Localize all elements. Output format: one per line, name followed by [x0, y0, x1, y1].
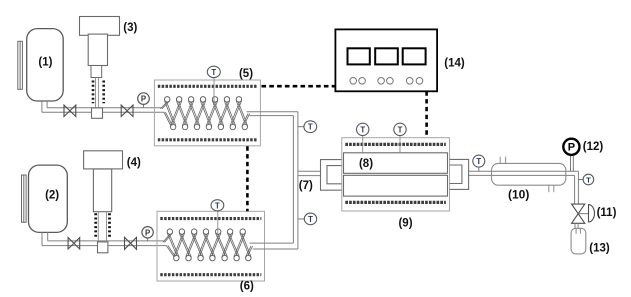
wire: upper feed pipe	[42, 108, 164, 113]
wire: lower feed pipe	[42, 241, 167, 246]
svg-text:P: P	[141, 95, 146, 104]
heater hatch row top of reactor	[345, 143, 446, 146]
svg-text:(2): (2)	[45, 190, 59, 202]
svg-text:(12): (12)	[583, 141, 604, 153]
temperature sensor T (reactor outlet)	[473, 155, 485, 171]
wire: tank 2 outlet elbow	[42, 232, 48, 246]
svg-text:(11): (11)	[597, 207, 617, 219]
heater hatch row bottom of reactor	[345, 201, 446, 204]
temperature sensor T on (6)	[211, 200, 224, 234]
svg-text:T: T	[215, 201, 220, 210]
svg-text:(7): (7)	[299, 180, 313, 192]
wire: down pipe to valve 11	[575, 171, 579, 204]
svg-text:(10): (10)	[508, 188, 529, 202]
svg-text:(13): (13)	[589, 243, 610, 255]
node (7) mixing junction pipe	[298, 171, 321, 175]
control panel (14)	[335, 29, 437, 91]
valve (11) with actuator	[572, 204, 595, 223]
svg-text:(3): (3)	[123, 22, 137, 34]
svg-text:T: T	[308, 123, 313, 132]
temperature sensor T (product)	[578, 174, 593, 185]
temperature sensor T1 on reactor	[357, 123, 369, 152]
valve V4	[125, 237, 137, 249]
svg-text:P: P	[568, 142, 575, 154]
svg-text:(9): (9)	[398, 218, 412, 230]
svg-text:T: T	[476, 157, 481, 166]
heater hatch row bottom of (6)	[160, 273, 261, 276]
pump (4) dosing pump	[84, 151, 123, 253]
reactor inner tube (8)	[344, 153, 448, 174]
heater hatch row top of (5)	[158, 85, 258, 88]
heater hatch row top of (6)	[160, 217, 261, 220]
coil of heat exchanger (6)	[163, 229, 253, 261]
temperature sensor T on (5)	[207, 66, 220, 103]
heat exchanger (6) shell	[157, 211, 265, 281]
control signal: exchanger 5 to exchanger 6 (dashed)	[246, 146, 249, 211]
svg-text:T: T	[211, 68, 216, 77]
svg-text:(8): (8)	[359, 158, 373, 170]
svg-text:T: T	[398, 125, 403, 134]
wire: reactor outlet manifold inner	[450, 165, 462, 184]
heat exchanger (5) shell	[154, 80, 260, 146]
condenser (10)	[492, 157, 566, 193]
svg-text:(6): (6)	[240, 281, 254, 293]
coil of heat exchanger (5)	[160, 97, 249, 130]
svg-text:T: T	[586, 175, 591, 184]
svg-text:P: P	[145, 228, 150, 237]
valve V3 (tank 2 isolation)	[68, 238, 80, 249]
heater hatch row bottom of (5)	[158, 138, 258, 141]
wire: reactor inlet manifold outer	[321, 160, 343, 191]
svg-text:(4): (4)	[127, 157, 141, 169]
svg-text:(1): (1)	[38, 56, 52, 68]
control signal: panel to reactor (dashed)	[425, 91, 428, 137]
wire: product pipe to condenser	[469, 171, 579, 175]
wire: vertical manifold pipe at node 7	[293, 112, 298, 249]
pump (3) dosing pump	[80, 17, 120, 119]
reactor (8)/(9) outer shell	[342, 138, 450, 211]
temperature sensor T2 on reactor	[394, 123, 406, 152]
wire: exchanger 5 outlet pipe	[247, 112, 298, 116]
valve V2	[121, 105, 133, 116]
wire: reactor outlet manifold outer	[450, 159, 469, 189]
control signal: panel to exchanger 5 (dashed)	[262, 85, 336, 88]
svg-text:T: T	[360, 125, 365, 134]
valve V1 (tank 1 isolation)	[64, 105, 76, 116]
temperature sensor T (hot stream)	[298, 121, 317, 133]
pressure gauge P (lower line)	[142, 227, 153, 241]
tank (2) feed vessel	[22, 165, 68, 232]
wire: reactor inlet manifold inner	[327, 166, 342, 184]
svg-text:(5): (5)	[239, 68, 253, 80]
svg-text:(14): (14)	[444, 58, 465, 70]
temperature sensor T (cold stream)	[298, 213, 317, 225]
pressure gauge P (12)	[563, 139, 579, 172]
tank (1) feed vessel	[18, 29, 63, 101]
collection vessel (13)	[571, 228, 586, 254]
svg-text:T: T	[308, 215, 313, 224]
wire: tank 1 outlet elbow	[42, 101, 47, 112]
pressure gauge P (upper line)	[138, 93, 150, 108]
reactor annulus (9)	[344, 175, 448, 196]
wire: exchanger 6 outlet pipe	[250, 243, 298, 249]
wire: valve 11 to vessel 13	[575, 223, 578, 228]
